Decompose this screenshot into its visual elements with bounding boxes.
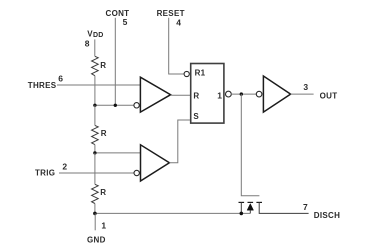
svg-text:4: 4 — [176, 18, 181, 28]
svg-text:OUT: OUT — [320, 91, 338, 100]
op-amp U1 (threshold comparator) — [140, 77, 170, 112]
wire node A horizontal to U1 - input — [95, 104, 134, 106]
wire THRES to comparator U1 + input — [57, 84, 140, 86]
wire CONT vertical — [114, 18, 116, 106]
svg-text:R: R — [101, 129, 107, 138]
op-amp U4 (trigger comparator) — [141, 145, 170, 181]
svg-text:THRES: THRES — [28, 81, 57, 90]
wire U1 output to latch R — [171, 94, 190, 96]
wire GND pin stub — [94, 213, 96, 230]
svg-text:R: R — [193, 92, 199, 101]
wire R3 bottom to GND node — [94, 204, 96, 214]
junction dot CONT/node A — [114, 104, 117, 107]
transistor Q1 body contact cap — [248, 201, 254, 203]
transistor Q1 source contact cap — [239, 201, 245, 203]
svg-text:8: 8 — [85, 39, 90, 49]
transistor Q1 drain stem and wire to DISCH — [259, 202, 308, 213]
wire RESET to R1 bubble — [169, 18, 184, 74]
junction dot output node — [240, 92, 243, 95]
svg-text:3: 3 — [303, 82, 308, 92]
wire node B down to R3 (crosses TRIG line) — [94, 153, 96, 184]
wire node A down to R2 — [94, 105, 96, 125]
transistor Q1 body arrow — [247, 204, 253, 211]
node A junction dot — [93, 104, 96, 107]
latch U2 box — [191, 64, 224, 124]
op-amp U3 (output buffer) — [263, 76, 290, 112]
transistor Q1 body stem — [249, 210, 251, 213]
transistor Q1 drain contact cap — [256, 201, 262, 203]
input bubble output buffer — [256, 91, 262, 97]
resistor R1 (top) — [92, 56, 99, 75]
node B junction dot — [93, 151, 96, 154]
resistor R3 (bottom) — [92, 184, 99, 203]
wire latch output node down to transistor gate — [241, 94, 259, 196]
svg-text:R1: R1 — [195, 69, 206, 78]
wire node B to comparator U4 + input — [95, 152, 140, 154]
svg-text:1: 1 — [217, 91, 222, 101]
svg-text:R: R — [100, 188, 106, 197]
junction dot Q1 source to ground rail — [240, 212, 244, 216]
svg-text:DISCH: DISCH — [314, 211, 340, 220]
wire R1 bottom to node A (crosses THRES line) — [94, 76, 96, 106]
wire buffer to OUT — [291, 93, 314, 95]
transistor Q1 source stem — [240, 202, 242, 213]
input bubble U1 — [134, 103, 139, 108]
wire U4 output to latch S — [169, 120, 190, 163]
svg-text:7: 7 — [303, 202, 308, 212]
svg-text:GND: GND — [87, 236, 106, 245]
output bubble of latch — [226, 91, 232, 97]
ground rail wire — [95, 212, 250, 214]
GND node junction dot — [93, 212, 97, 216]
resistor R2 (middle) — [92, 125, 99, 144]
svg-text:TRIG: TRIG — [35, 169, 55, 178]
svg-text:S: S — [193, 112, 199, 121]
svg-text:R: R — [100, 61, 106, 70]
wire latch output to buffer — [231, 93, 256, 95]
input bubble U4 — [134, 170, 139, 175]
svg-text:2: 2 — [62, 161, 67, 171]
wire R2 bottom to node B — [94, 145, 96, 153]
wire TRIG to U4 - input bubble — [59, 172, 134, 174]
input bubble R1 of latch — [184, 71, 189, 76]
svg-text:1: 1 — [101, 220, 106, 230]
svg-text:5: 5 — [123, 17, 128, 27]
svg-text:6: 6 — [58, 74, 63, 84]
wire VDD stub — [94, 39, 96, 56]
svg-text:VDD: VDD — [87, 29, 103, 39]
